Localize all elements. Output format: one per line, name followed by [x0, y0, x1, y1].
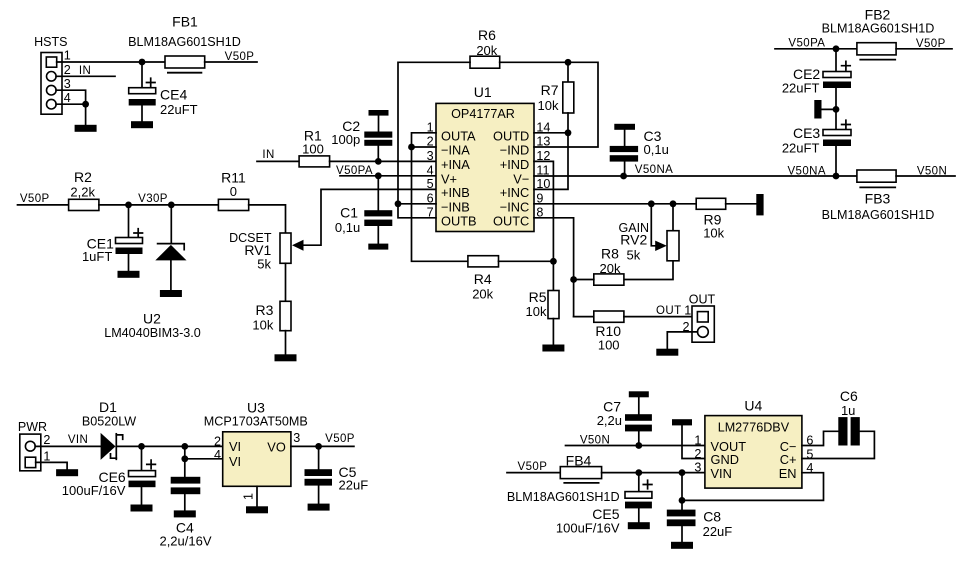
svg-text:22uFT: 22uFT	[782, 140, 820, 155]
svg-text:VI: VI	[229, 439, 241, 454]
svg-text:VIN: VIN	[68, 434, 88, 446]
wire feedback vertical down to R4	[412, 147, 468, 261]
svg-text:R7: R7	[541, 82, 559, 98]
ground below PWR	[56, 469, 78, 476]
svg-text:10k: 10k	[526, 304, 547, 319]
svg-text:R5: R5	[529, 289, 547, 305]
ground below R3	[275, 354, 297, 361]
svg-text:OUT: OUT	[689, 293, 716, 307]
end stub bar right of R9	[756, 194, 763, 215]
svg-text:100uF/16V: 100uF/16V	[556, 520, 620, 535]
connector HSTS pin 4 pad	[47, 99, 57, 109]
svg-text:4: 4	[64, 91, 71, 105]
wire junction down to CE1	[128, 205, 130, 238]
svg-text:U4: U4	[744, 398, 762, 414]
svg-text:V50N: V50N	[917, 166, 947, 178]
svg-text:0,1u: 0,1u	[644, 142, 669, 157]
node junction RV2 top	[670, 200, 677, 207]
svg-text:R2: R2	[74, 169, 92, 185]
svg-text:22uF: 22uF	[703, 524, 733, 539]
wire R6 left down to U1 pin6	[398, 62, 470, 204]
wire V50P to R2	[18, 204, 69, 206]
wire R8 left to pin8 vertical	[574, 279, 594, 281]
wire junction to ground	[85, 104, 87, 125]
wire V50PA to U1 pin4	[340, 175, 436, 177]
svg-text:LM4040BIM3-3.0: LM4040BIM3-3.0	[104, 326, 201, 340]
svg-text:0: 0	[230, 184, 237, 199]
svg-text:OUT: OUT	[656, 305, 681, 317]
wire R7 top stub	[567, 62, 569, 82]
svg-text:5k: 5k	[257, 257, 271, 272]
svg-text:5: 5	[427, 177, 434, 191]
svg-text:FB2: FB2	[865, 6, 891, 22]
node junction R6/R7	[565, 59, 572, 66]
wire R3 to ground	[285, 331, 287, 355]
svg-text:C6: C6	[840, 388, 858, 404]
svg-text:2,2u/16V: 2,2u/16V	[159, 534, 211, 549]
svg-text:−INC: −INC	[500, 199, 530, 214]
wire RV1 wiper from U1 pin5	[303, 189, 436, 245]
svg-text:OUTD: OUTD	[493, 129, 529, 144]
node junction R8/pin8	[570, 276, 577, 283]
node junction RV2 wiper	[648, 200, 655, 207]
wire U1 pin12 down to R4/R5 node	[534, 161, 553, 290]
wire V50PA to FB2	[775, 48, 857, 50]
svg-text:10k: 10k	[252, 318, 273, 333]
wire R1 to U1 pin3	[330, 160, 436, 162]
ground below C8	[671, 542, 693, 549]
wire HSTS pin1 to FB1	[57, 61, 165, 63]
svg-text:2: 2	[43, 433, 50, 447]
node junction C2/pin3	[375, 158, 382, 165]
svg-text:C1: C1	[340, 205, 358, 221]
ground below R5	[542, 345, 564, 352]
svg-text:RV1: RV1	[244, 242, 271, 258]
svg-text:U3: U3	[247, 400, 265, 416]
svg-text:100: 100	[302, 142, 324, 157]
ground bar above U4 GND pin	[672, 419, 692, 425]
node junction pin3/pin4	[82, 101, 89, 108]
node junction C7/V50N	[635, 442, 642, 449]
svg-text:FB3: FB3	[865, 190, 891, 206]
svg-text:−IND: −IND	[500, 143, 530, 158]
wire VIN node down to C8	[681, 473, 683, 510]
node junction C5	[315, 443, 322, 450]
node junction pin6	[395, 200, 402, 207]
svg-text:C+: C+	[780, 452, 797, 467]
svg-text:CE3: CE3	[793, 125, 820, 141]
node junction CE1	[125, 202, 132, 209]
svg-text:1: 1	[43, 449, 50, 463]
resistor R5	[548, 291, 559, 319]
svg-text:+INB: +INB	[441, 185, 470, 200]
svg-text:1: 1	[64, 49, 71, 63]
svg-text:−INA: −INA	[441, 143, 470, 158]
node junction R4/R5	[550, 258, 557, 265]
wire R10 to OUT connector	[624, 316, 698, 318]
svg-text:D1: D1	[99, 399, 117, 415]
svg-text:V50P: V50P	[325, 433, 355, 445]
wire FB3 to V50N	[896, 175, 955, 177]
wire U1 pin8 down	[534, 218, 574, 317]
svg-text:100: 100	[598, 337, 620, 352]
svg-text:2,2k: 2,2k	[70, 184, 95, 199]
wire junction down to CE4	[141, 62, 143, 88]
wire R9 to end stub	[726, 203, 757, 205]
wire R4 to R5 node	[499, 260, 554, 262]
wire FB4 to U4 pin3	[602, 472, 705, 474]
svg-text:100p: 100p	[331, 132, 360, 147]
svg-text:22uF: 22uF	[339, 477, 369, 492]
svg-text:2: 2	[64, 63, 71, 77]
wire RV1 to R3	[285, 263, 287, 301]
svg-text:1: 1	[694, 434, 701, 448]
svg-text:BLM18AG601SH1D: BLM18AG601SH1D	[128, 35, 241, 49]
resistor R4	[468, 256, 499, 267]
svg-text:20k: 20k	[472, 287, 493, 302]
svg-text:V50P: V50P	[916, 38, 946, 50]
svg-text:3: 3	[293, 431, 300, 445]
wire V50NA rail from U1 pin11	[534, 175, 857, 177]
svg-text:V+: V+	[441, 171, 457, 186]
svg-text:CE2: CE2	[793, 66, 820, 82]
svg-text:3: 3	[64, 77, 71, 91]
wire IN to R1	[257, 160, 299, 162]
wire FB2 to V50P	[896, 48, 952, 50]
svg-text:PWR: PWR	[18, 420, 47, 434]
connector PWR body	[20, 434, 41, 471]
wire U4 pin4 EN loop to VIN node	[682, 473, 824, 501]
wire U1 pin2	[412, 146, 437, 148]
svg-text:1uFT: 1uFT	[82, 249, 112, 264]
svg-text:10k: 10k	[703, 225, 724, 240]
svg-text:HSTS: HSTS	[34, 35, 67, 49]
ground below U3	[246, 506, 268, 513]
svg-text:4: 4	[427, 164, 434, 178]
wire R11 to RV1	[249, 205, 286, 233]
svg-text:V50NA: V50NA	[635, 164, 673, 176]
svg-text:MCP1703AT50MB: MCP1703AT50MB	[204, 415, 308, 429]
svg-text:V50PA: V50PA	[788, 37, 825, 49]
wire D1 to U3	[116, 445, 222, 447]
wire HSTS pin3	[56, 90, 86, 104]
svg-text:R10: R10	[595, 323, 621, 339]
svg-text:R8: R8	[601, 245, 619, 261]
svg-text:5k: 5k	[627, 248, 641, 263]
svg-text:BLM18AG601SH1D: BLM18AG601SH1D	[822, 21, 935, 35]
svg-text:R11: R11	[221, 169, 246, 185]
node junction pin1/pin2	[408, 144, 415, 151]
svg-text:BLM18AG601SH1D: BLM18AG601SH1D	[507, 490, 620, 504]
connector OUT body	[692, 306, 714, 342]
node junction U3 pin4	[181, 455, 188, 462]
node junction C3	[620, 173, 627, 180]
svg-text:+IND: +IND	[500, 157, 530, 172]
svg-text:FB1: FB1	[172, 14, 198, 30]
svg-text:2,2u: 2,2u	[597, 413, 622, 428]
svg-text:V50P: V50P	[518, 461, 548, 473]
wire U4 GND pin2	[682, 425, 705, 458]
wire pin6 node to U1 pin7	[398, 204, 436, 218]
svg-text:C8: C8	[703, 509, 721, 525]
svg-text:R6: R6	[478, 27, 496, 43]
wire HSTS pin4	[56, 103, 86, 105]
ground below HSTS	[75, 125, 97, 132]
svg-text:4: 4	[214, 448, 221, 462]
node junction EN loop	[679, 497, 686, 504]
svg-text:V30P: V30P	[138, 193, 168, 205]
wire RV2 bottom to R8	[624, 261, 673, 280]
svg-text:OUTB: OUTB	[441, 214, 477, 229]
ground below CE5	[628, 522, 650, 529]
wire U1 pin9 to R9	[534, 203, 696, 205]
svg-text:C7: C7	[603, 399, 621, 415]
wire U1 pin14	[534, 132, 568, 134]
node junction CE2/CE3	[833, 106, 840, 113]
connector HSTS pin 2 pad	[47, 72, 57, 82]
svg-text:100uF/16V: 100uF/16V	[62, 483, 126, 498]
svg-text:V−: V−	[513, 171, 529, 186]
svg-text:U1: U1	[474, 84, 492, 100]
svg-text:GND: GND	[711, 452, 739, 467]
svg-text:VI: VI	[229, 454, 241, 469]
wire U3 pin1 to ground	[256, 486, 258, 506]
node junction C8/VIN	[679, 469, 686, 476]
ferrite bead FB3	[857, 170, 896, 182]
svg-text:22uFT: 22uFT	[782, 80, 820, 95]
svg-text:3: 3	[427, 149, 434, 163]
node junction CE2 top	[833, 45, 840, 52]
svg-text:1u: 1u	[841, 403, 855, 418]
svg-text:OUTC: OUTC	[493, 214, 529, 229]
svg-text:OP4177AR: OP4177AR	[451, 107, 515, 121]
wire U1 pin1 to feedback vertical	[412, 133, 437, 147]
wire C6 to U4 pin5	[802, 431, 875, 458]
svg-text:2: 2	[214, 434, 221, 448]
ground below OUT	[656, 349, 678, 356]
svg-text:OUTA: OUTA	[441, 129, 476, 144]
svg-text:U2: U2	[143, 311, 161, 327]
connector HSTS pin 1 pad	[46, 57, 56, 67]
node junction FB1/CE4	[139, 59, 146, 66]
node junction C4	[181, 443, 188, 450]
svg-text:22uFT: 22uFT	[160, 102, 198, 117]
svg-text:BLM18AG601SH1D: BLM18AG601SH1D	[822, 208, 935, 222]
svg-text:CE4: CE4	[160, 87, 187, 103]
svg-text:+INA: +INA	[441, 157, 470, 172]
wire PWR pin1 to ground	[36, 462, 67, 469]
connector OUT pin1 pad	[697, 312, 708, 322]
ground stub left of CE2/CE3 junction	[822, 108, 837, 110]
node junction R7/pin14	[565, 129, 572, 136]
connector PWR pin 2 pad	[25, 441, 35, 451]
wire FB1 to V50P	[205, 61, 257, 63]
svg-text:V50P: V50P	[225, 51, 255, 63]
node junction CE6	[138, 443, 145, 450]
wire U3 pin3 VO to V50P	[291, 445, 354, 447]
ground below CE6	[131, 505, 153, 512]
ground below CE1	[118, 271, 140, 278]
svg-text:1: 1	[242, 493, 256, 500]
svg-text:10k: 10k	[538, 98, 559, 113]
wire OUT pin2 to ground	[667, 332, 697, 349]
svg-text:−INB: −INB	[441, 199, 470, 214]
node junction C1/pin4	[375, 172, 382, 179]
wire RV2 wiper arrow	[651, 204, 656, 246]
connector PWR pin 1 pad	[25, 457, 36, 467]
svg-text:IN: IN	[262, 149, 274, 161]
svg-text:2: 2	[694, 447, 701, 461]
svg-text:R3: R3	[255, 302, 273, 318]
svg-text:V50P: V50P	[20, 193, 50, 205]
connector HSTS pin 3 pad	[47, 85, 57, 95]
svg-text:VO: VO	[267, 440, 286, 455]
svg-text:R4: R4	[474, 271, 492, 287]
wire junction down to C4 and U3 pin4	[184, 446, 186, 476]
svg-text:0,1u: 0,1u	[335, 220, 360, 235]
wire U4 pin6 to C6	[802, 431, 838, 445]
wire R7 bottom to pin14 and pin10	[534, 113, 568, 189]
wire junction down to U2	[170, 205, 172, 243]
wire U3 pin4	[185, 458, 223, 460]
ground below C5	[308, 504, 330, 511]
wire R5 to ground	[552, 319, 554, 345]
svg-text:IN: IN	[79, 65, 91, 77]
node junction U2	[168, 202, 175, 209]
svg-text:V50NA: V50NA	[787, 166, 825, 178]
svg-text:3: 3	[694, 460, 701, 474]
ground below CE4	[131, 121, 153, 128]
svg-text:EN: EN	[779, 466, 797, 481]
wire down to R10	[574, 316, 594, 318]
node junction CE5	[635, 469, 642, 476]
wire R6 right to R7 top	[500, 62, 598, 147]
svg-text:RV2: RV2	[620, 232, 647, 248]
svg-text:LM2776DBV: LM2776DBV	[718, 420, 790, 434]
zener diode U2	[158, 244, 185, 250]
svg-text:+INC: +INC	[500, 185, 530, 200]
connector HSTS body	[41, 53, 62, 115]
svg-text:B0520LW: B0520LW	[82, 415, 136, 429]
wire R2 to R11	[99, 204, 218, 206]
node junction V50NA/FB3	[833, 173, 840, 180]
ground below U2	[160, 290, 182, 297]
wire V50P to FB4	[507, 472, 560, 474]
connector OUT pin2 pad	[698, 327, 709, 338]
wire U1 pin6	[398, 203, 436, 205]
svg-text:V50N: V50N	[580, 434, 610, 446]
svg-text:VIN: VIN	[711, 466, 732, 481]
